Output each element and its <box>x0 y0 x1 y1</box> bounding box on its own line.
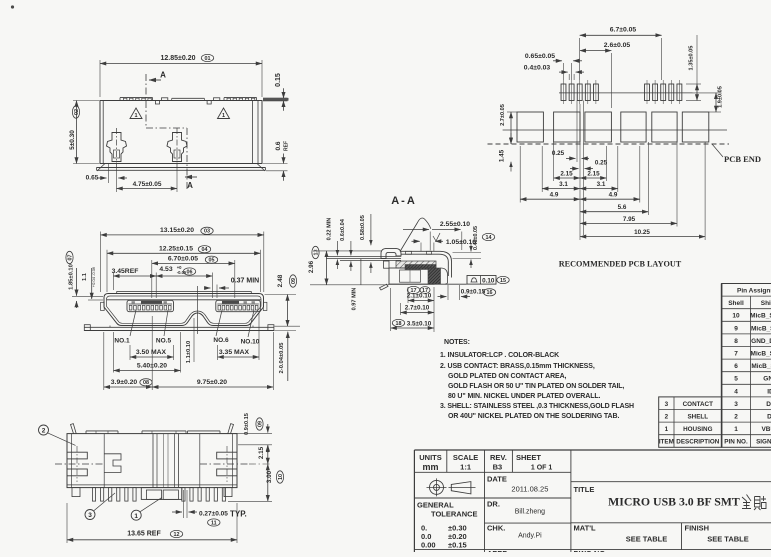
svg-text:9: 9 <box>734 325 738 332</box>
svg-text:4.9: 4.9 <box>550 192 559 199</box>
svg-text:SEE TABLE: SEE TABLE <box>707 535 749 544</box>
svg-text:10.25: 10.25 <box>634 229 650 236</box>
svg-text:+0.04 -0.06: +0.04 -0.06 <box>91 266 96 287</box>
svg-text:SHEET: SHEET <box>516 453 541 462</box>
svg-text:MicB_SSTX-: MicB_SSTX- <box>751 363 771 370</box>
pcb layout: dimension 2.15 pair <box>554 177 580 179</box>
svg-text:D+: D+ <box>766 401 771 408</box>
front view: dimension 3.9+-0.20 (08) and 9.75+-0.20 <box>103 332 105 390</box>
title block outer border <box>414 449 771 451</box>
parts table grid <box>659 397 722 447</box>
bottom view: solder comb teeth left <box>72 488 80 497</box>
svg-text:MicB_SSRX+: MicB_SSRX+ <box>750 313 771 320</box>
svg-text:8: 8 <box>734 338 738 345</box>
front view: solder flange <box>84 326 274 328</box>
pcb layout: dimension 1.45 left <box>510 133 512 143</box>
svg-text:10: 10 <box>278 474 284 480</box>
svg-text:2.15: 2.15 <box>258 446 265 459</box>
title block projection cone symbol <box>451 482 471 494</box>
svg-text:5±0.30: 5±0.30 <box>69 130 76 150</box>
svg-text:0.25: 0.25 <box>595 160 608 167</box>
svg-text:SHELL: SHELL <box>687 414 708 421</box>
svg-text:MicB_SSRX-: MicB_SSRX- <box>751 325 771 332</box>
section A-A: plate retention bumps <box>406 251 412 254</box>
svg-text:16: 16 <box>487 290 493 296</box>
svg-text:CONTACT: CONTACT <box>683 401 713 408</box>
svg-text:SEE TABLE: SEE TABLE <box>626 535 668 544</box>
svg-text:3.35 MAX: 3.35 MAX <box>219 349 250 356</box>
pcb layout: mount pads row <box>517 112 543 142</box>
svg-text:2.15: 2.15 <box>560 171 573 178</box>
bottom view: left key notch <box>104 454 121 473</box>
svg-text:13: 13 <box>313 250 319 256</box>
svg-text:7: 7 <box>734 351 738 358</box>
section A-A: flatness feature control frame (15) <box>467 276 496 285</box>
bottom view: balloon 2 <box>39 425 49 435</box>
svg-text:01: 01 <box>205 56 211 62</box>
front view: left contact teeth <box>129 305 132 310</box>
svg-text:1: 1 <box>222 113 225 119</box>
svg-text:80 U" MIN. NICKEL UNDER PLATED: 80 U" MIN. NICKEL UNDER PLATED OVERALL. <box>448 393 601 400</box>
pcb layout: dimension 6.7+-0.05 <box>579 38 581 80</box>
svg-text:2: 2 <box>734 414 738 421</box>
front view: top inner band <box>107 299 262 301</box>
pcb layout: dimension 4.9 pair <box>520 198 580 200</box>
svg-text:GENERAL: GENERAL <box>417 501 454 510</box>
svg-text:12.85±0.20: 12.85±0.20 <box>161 55 196 62</box>
svg-text:±0.15: ±0.15 <box>448 541 467 550</box>
pcb layout: dimension 3.1 pair <box>542 188 580 190</box>
svg-text:ITEM: ITEM <box>659 439 674 446</box>
svg-text:0.4±0.03: 0.4±0.03 <box>524 65 551 72</box>
section A-A: insulator hatched block <box>396 261 436 268</box>
svg-text:A: A <box>187 181 193 190</box>
svg-text:PIN NO.: PIN NO. <box>724 439 748 446</box>
svg-text:UNITS: UNITS <box>419 453 442 462</box>
section A-A: dimension 3.5+-0.10 (18) <box>390 288 392 331</box>
bottom view: corner pin stubs <box>71 424 77 434</box>
svg-text:2: 2 <box>42 428 46 435</box>
bottom view: solder comb teeth right <box>182 488 185 502</box>
svg-text:B3: B3 <box>493 463 503 472</box>
svg-text:1.35±0.05: 1.35±0.05 <box>689 46 695 71</box>
svg-text:2.7±0.10: 2.7±0.10 <box>405 305 430 312</box>
svg-text:1.1: 1.1 <box>82 272 88 281</box>
svg-text:0.58±0.05: 0.58±0.05 <box>360 215 366 240</box>
svg-text:09: 09 <box>291 278 297 284</box>
bottom view: right dimension 0.9+-0.15 <box>221 433 272 435</box>
section A-A: top shell plate <box>401 251 452 277</box>
section A-A: bottom seating line <box>389 283 467 285</box>
svg-text:15: 15 <box>500 278 506 284</box>
svg-text:0.6: 0.6 <box>275 141 282 150</box>
bottom view: right side pegs <box>217 452 237 459</box>
svg-text:0.27±0.05: 0.27±0.05 <box>199 511 228 518</box>
svg-text:11: 11 <box>211 520 217 526</box>
svg-text:0.25: 0.25 <box>552 150 565 157</box>
svg-text:2.48: 2.48 <box>277 274 284 287</box>
svg-text:SIGNAL: SIGNAL <box>756 439 771 446</box>
svg-text:0.9±0.15: 0.9±0.15 <box>461 288 486 295</box>
section A-A: solder tail lines left <box>326 255 401 257</box>
pcb layout: dimension 0.25 right <box>570 168 579 170</box>
pcb layout: dimension 1.9+-0.05 <box>693 92 722 94</box>
svg-text:MicB_SSTX+: MicB_SSTX+ <box>751 351 771 358</box>
top view: top edge center tab <box>172 97 205 99</box>
top view: pcb edge bar right <box>263 98 289 101</box>
svg-text:GOLD PLATED ON CONTACT AREA,: GOLD PLATED ON CONTACT AREA, <box>448 373 567 380</box>
svg-text:3: 3 <box>734 401 738 408</box>
section A-A: right hatched leg <box>428 268 441 284</box>
svg-text:TYP.: TYP. <box>230 510 247 519</box>
svg-text:03: 03 <box>204 229 210 235</box>
svg-text:12: 12 <box>174 532 180 538</box>
front view: dimension 4.53 (06) and 3.45REF <box>112 273 114 291</box>
svg-text:3.1: 3.1 <box>597 181 606 188</box>
svg-text:REF: REF <box>284 141 290 151</box>
svg-text:1.85±0.10: 1.85±0.10 <box>69 264 75 290</box>
svg-text:3.9±0.20: 3.9±0.20 <box>111 379 138 386</box>
pcb layout: dimension 5.6 <box>580 211 648 213</box>
svg-text:NO.6: NO.6 <box>213 337 229 344</box>
svg-text:Andy.Pi: Andy.Pi <box>518 533 542 540</box>
svg-text:0.65: 0.65 <box>86 175 99 182</box>
section A-A: dimension 2.1+-0.10 (17) <box>407 286 419 294</box>
svg-text:08: 08 <box>143 380 149 386</box>
front view: dimension 2.48 (09) right <box>265 294 297 296</box>
top view: dimension 0.65 <box>107 163 109 183</box>
svg-text:NO.1: NO.1 <box>114 338 130 345</box>
svg-text:GOLD FLASH OR 50 U" TIN PLATED: GOLD FLASH OR 50 U" TIN PLATED ON SOLDER… <box>448 383 624 390</box>
svg-text:1.05±0.10: 1.05±0.10 <box>446 239 476 246</box>
svg-text:1. INSULATOR:LCP . COLOR-BLACK: 1. INSULATOR:LCP . COLOR-BLACK <box>440 352 559 359</box>
front view: dimension 12.25+-0.15 (04) <box>106 250 108 292</box>
svg-text:6.70±0.05: 6.70±0.05 <box>168 256 198 263</box>
svg-text:VBUS: VBUS <box>761 426 771 433</box>
front view: dimension 1.1+-0.10 bump <box>193 318 195 362</box>
svg-text:18: 18 <box>396 321 402 327</box>
svg-text:mm: mm <box>422 462 438 472</box>
svg-text:3.45REF: 3.45REF <box>112 268 139 275</box>
svg-text:DR.: DR. <box>487 500 500 509</box>
front view: pin number labels NO.1 NO.5 NO.6 NO.10 <box>130 310 136 336</box>
svg-text:TITLE: TITLE <box>574 485 595 494</box>
svg-text:0.6±0.04: 0.6±0.04 <box>340 218 346 241</box>
top view: warning triangle left <box>130 108 142 119</box>
svg-text:2.6±0.05: 2.6±0.05 <box>604 42 631 49</box>
svg-text:4.75±0.05: 4.75±0.05 <box>133 181 162 188</box>
svg-text:4: 4 <box>734 388 738 395</box>
svg-text:1: 1 <box>665 426 669 433</box>
pcb layout: dimension 0.25 left <box>566 157 576 159</box>
section A-A: dimension 2.96 (13) <box>318 250 381 252</box>
svg-text:2.1±0.10: 2.1±0.10 <box>407 293 432 300</box>
svg-text:Bill.zheng: Bill.zheng <box>515 509 545 516</box>
top view: dimension 12.85+-0.20 (01) <box>99 60 101 97</box>
svg-text:2.7±0.05: 2.7±0.05 <box>500 104 506 126</box>
bottom view: center pads <box>141 488 182 500</box>
front view: top tab <box>117 292 252 294</box>
bottom view: dimension 13.65 REF (12) <box>66 503 68 543</box>
top view: section arrow A bottom <box>185 176 197 178</box>
top view: shell body outline <box>100 101 262 164</box>
svg-text:CHK.: CHK. <box>487 524 505 533</box>
svg-text:07: 07 <box>67 255 73 261</box>
top view: top edge tabs and notches right <box>207 101 211 105</box>
pcb layout: dimension 0.65+-0.05 <box>563 63 565 80</box>
svg-text:FINISH: FINISH <box>685 524 710 533</box>
svg-text:2.55±0.10: 2.55±0.10 <box>440 221 470 228</box>
bottom view: inner walls <box>71 434 73 488</box>
front view: outer shell outline <box>104 294 264 326</box>
pcb layout: dimension 7.95 <box>580 222 677 224</box>
front view: left wall tab <box>101 302 105 310</box>
svg-text:MAT'L: MAT'L <box>574 524 596 533</box>
svg-text:1: 1 <box>134 513 138 520</box>
pcb layout: dimension chain verticals <box>579 104 581 240</box>
svg-text:3.1: 3.1 <box>559 181 568 188</box>
pcb layout: mount pad centerline <box>503 129 727 131</box>
svg-text:0.9±0.15: 0.9±0.15 <box>244 413 250 435</box>
top view: mounting peg right <box>167 133 187 162</box>
section A-A: contact dark region <box>405 265 436 270</box>
svg-text:0.65±0.05: 0.65±0.05 <box>525 53 555 60</box>
svg-text:04: 04 <box>202 247 208 253</box>
svg-text:A: A <box>160 71 166 80</box>
section A-A: dimension 1.05+-0.10 <box>420 243 422 252</box>
svg-text:DATE: DATE <box>487 475 507 484</box>
svg-text:1.1±0.10: 1.1±0.10 <box>186 341 192 364</box>
front view: inner shell outline <box>107 296 262 323</box>
front view: left dimension 1.85+-0.10 (07) <box>72 296 103 298</box>
svg-text:GND_DRAIN: GND_DRAIN <box>751 338 771 345</box>
svg-text:1:1: 1:1 <box>460 463 471 472</box>
pcb layout: dimension 2.7+-0.05 left <box>507 111 517 113</box>
top view: dimension 5+-0.30 (02) <box>73 100 99 102</box>
svg-text:Shell: Shell <box>728 300 744 307</box>
top view: bottom flange <box>97 167 266 169</box>
svg-text:2.96: 2.96 <box>308 260 315 273</box>
front view: dimension 13.15+-0.20 (03) <box>100 232 102 293</box>
svg-text:6.7±0.05: 6.7±0.05 <box>610 27 637 34</box>
pcb layout: PCB END dashed line <box>488 143 730 145</box>
svg-text:3.00: 3.00 <box>266 470 273 483</box>
svg-text:NO.5: NO.5 <box>156 338 172 345</box>
bottom view: center tongue columns <box>152 434 154 488</box>
bottom view: top crown bumps <box>86 430 118 432</box>
front view: right contact block <box>216 300 260 311</box>
svg-text:3. SHELL: STAINLESS STEEL ,0.3: 3. SHELL: STAINLESS STEEL ,0.3 THICKNESS… <box>440 403 634 410</box>
front view: left contact block <box>127 300 174 311</box>
pcb layout: dimension 10.25 <box>580 236 705 238</box>
svg-text:12.25±0.15: 12.25±0.15 <box>159 245 193 252</box>
svg-text:2011.08.25: 2011.08.25 <box>511 485 548 494</box>
svg-text:0.00: 0.00 <box>421 541 436 550</box>
svg-text:3.50 MAX: 3.50 MAX <box>136 349 167 356</box>
svg-text:0.10: 0.10 <box>482 278 495 285</box>
scan speck top-left <box>11 5 14 8</box>
svg-text:A-A: A-A <box>391 195 417 207</box>
svg-text:1.9±0.05: 1.9±0.05 <box>718 86 724 108</box>
bottom view: left side pegs <box>67 452 87 459</box>
bottom view: right dimension 3.00 (10) <box>228 500 272 502</box>
bottom view: right dimension 2.15 <box>249 463 272 465</box>
top view: section arrow A top <box>149 79 161 81</box>
svg-text:2-0.04±0.05: 2-0.04±0.05 <box>279 342 285 374</box>
section A-A: dimension 0.97 MIN <box>360 259 362 285</box>
top view: dimension 0.6 REF right <box>263 163 288 165</box>
svg-text:0.15: 0.15 <box>275 73 282 87</box>
bottom view: body outline <box>67 434 237 488</box>
pcb layout: signal pads group 1 <box>561 84 566 101</box>
svg-text:RECOMMENDED PCB LAYOUT: RECOMMENDED PCB LAYOUT <box>559 260 682 269</box>
svg-text:1 OF 1: 1 OF 1 <box>531 465 553 472</box>
section A-A: bottom left foot <box>380 284 389 290</box>
bottom view: balloon 1 <box>131 510 141 520</box>
svg-text:7.95: 7.95 <box>623 216 636 223</box>
svg-text:4.9: 4.9 <box>609 192 618 199</box>
pcb layout: pad row centerline <box>559 92 693 94</box>
title block third angle projection symbol <box>430 480 444 494</box>
svg-text:ID: ID <box>767 388 771 395</box>
svg-text:09: 09 <box>257 421 263 427</box>
front view: dimension 5.40+-0.20 <box>113 332 115 373</box>
svg-text:OR 40U" NICKEL PLATED ON THE S: OR 40U" NICKEL PLATED ON THE SOLDERING T… <box>448 413 619 420</box>
section A-A: lower insulator body <box>389 268 434 284</box>
front view: dimension 6.70+-0.05 (05) <box>151 260 153 298</box>
svg-text:13.15±0.20: 13.15±0.20 <box>160 227 194 234</box>
svg-text:06: 06 <box>187 269 193 275</box>
pin assignment table grid <box>722 284 771 448</box>
section A-A: left tab <box>384 261 390 268</box>
svg-text:D-: D- <box>767 414 771 421</box>
svg-text:MICRO USB 3.0 BF SMT: MICRO USB 3.0 BF SMT <box>608 495 740 509</box>
pcb layout: dimension 2.6+-0.05 <box>610 53 612 108</box>
svg-text:TOLERANCE: TOLERANCE <box>431 510 478 519</box>
svg-text:Shield: Shield <box>761 300 771 307</box>
svg-text:1: 1 <box>734 426 738 433</box>
svg-text:5.6: 5.6 <box>618 204 627 211</box>
section A-A: surface finish leader diagonal <box>400 218 431 251</box>
svg-text:HOUSING: HOUSING <box>683 426 712 433</box>
pcb layout: signal pads group 2 <box>645 84 650 101</box>
svg-text:0.22 MIN: 0.22 MIN <box>327 218 333 241</box>
svg-text:0.37 MIN: 0.37 MIN <box>231 278 259 285</box>
svg-text:GND: GND <box>763 376 771 383</box>
svg-text:5: 5 <box>734 376 738 383</box>
top view: dimension 0.15 right <box>263 97 288 99</box>
svg-text:NOTES:: NOTES: <box>444 339 470 346</box>
title block chinese characters quan tie <box>742 495 751 509</box>
front view: center line vertical <box>196 286 198 334</box>
svg-text:14: 14 <box>486 235 492 241</box>
svg-text:Pin Assignme: Pin Assignme <box>737 288 771 295</box>
svg-text:REV.: REV. <box>490 453 507 462</box>
top view: top edge tabs and notches left <box>120 97 153 99</box>
svg-text:05: 05 <box>209 258 215 264</box>
front view: dimension 0.37 MIN <box>216 285 218 299</box>
svg-text:3.5±0.10: 3.5±0.10 <box>407 320 432 327</box>
svg-text:PCB END: PCB END <box>724 154 761 164</box>
top view: section cut line A-A <box>145 74 147 128</box>
svg-text:DESCRIPTION: DESCRIPTION <box>676 439 719 446</box>
svg-text:NO.10: NO.10 <box>241 339 260 346</box>
svg-text:13.65 REF: 13.65 REF <box>127 530 161 537</box>
svg-text:SCALE: SCALE <box>453 453 478 462</box>
svg-text:6: 6 <box>734 363 738 370</box>
front view: dimension 3.50 MAX <box>129 345 131 360</box>
svg-text:1.45: 1.45 <box>499 149 506 162</box>
bottom view: bottom rail <box>67 484 237 486</box>
svg-text:4.53: 4.53 <box>159 266 172 273</box>
title block grid lines <box>414 471 571 473</box>
svg-text:02: 02 <box>74 109 80 115</box>
svg-text:3: 3 <box>665 401 669 408</box>
front view: dimension 2-0.04+-0.05 right <box>275 330 297 332</box>
svg-text:2: 2 <box>665 414 669 421</box>
svg-text:2.15: 2.15 <box>587 171 600 178</box>
top view: warning triangle right <box>218 108 230 119</box>
svg-text:2. USB CONTACT: BRASS,0.15mm T: 2. USB CONTACT: BRASS,0.15mm THICKNESS, <box>440 363 595 370</box>
section A-A: dimension 0.48+-0.05 (14) <box>453 252 482 254</box>
section A-A: shell top curl <box>381 248 401 258</box>
svg-text:1: 1 <box>134 113 137 119</box>
front view: dimension 3.35 MAX <box>217 345 219 360</box>
svg-text:9.75±0.20: 9.75±0.20 <box>197 379 227 386</box>
section A-A: dimension 2.55+-0.10 <box>429 232 431 251</box>
pcb layout: dimension 0.4+-0.03 <box>568 74 570 80</box>
front view: right contact teeth <box>218 305 221 310</box>
top view: dimension 4.75+-0.05 <box>116 168 118 192</box>
bottom view: dimension 0.27+-0.05 TYP (11) <box>183 490 185 518</box>
svg-text:10: 10 <box>732 313 740 320</box>
svg-text:0.97 MIN: 0.97 MIN <box>352 288 358 311</box>
pcb layout: dimension 1.35+-0.05 <box>686 83 701 85</box>
svg-text:3: 3 <box>88 512 92 519</box>
section A-A: dimension 0.9+-0.15 (16) <box>447 285 449 300</box>
top view: mounting peg left <box>107 133 127 162</box>
section A-A: dimension 2.7+-0.10 <box>400 303 402 315</box>
front view: right wall tab <box>263 302 267 310</box>
bottom view: balloon 3 <box>85 510 95 520</box>
svg-text:0.48±0.05: 0.48±0.05 <box>473 226 479 250</box>
